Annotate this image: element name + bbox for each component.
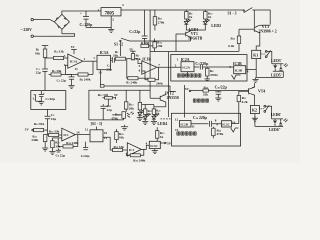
LED7 mark (127, 112, 134, 118)
regulator 7805 U1 (101, 8, 121, 17)
op-amp IC1C (62, 128, 76, 141)
resistor R14b 20k (124, 90, 128, 111)
resistor R7 240k (128, 77, 145, 80)
wire junction down to R7 (127, 59, 128, 78)
dashes S1-4 link (161, 118, 171, 120)
LED3' LED5' pair (272, 57, 288, 78)
capacitor C10 220u (209, 121, 221, 127)
resistor R18b 91k (115, 129, 119, 143)
5V tick R6 (129, 48, 136, 52)
frame lower monostable (172, 113, 241, 146)
ground R8 (205, 79, 210, 80)
oscillator section frame (89, 90, 150, 120)
ground C2 (68, 84, 74, 89)
capacitor C10r 22u (215, 91, 221, 96)
capacitor C9 22u (45, 110, 51, 131)
ground R15 (42, 146, 48, 151)
resistor R5 33k (116, 57, 138, 60)
contact K2 (259, 105, 271, 112)
capacitor C9b (83, 142, 88, 150)
capacitor C8 gnd (56, 148, 61, 152)
resistor R13 470k (112, 112, 125, 120)
AC terminal top (31, 18, 33, 20)
wire IC2A out (194, 66, 199, 68)
LED4 (152, 114, 158, 119)
ground 7805 pin2 (108, 27, 114, 32)
resistor R26 470k (212, 127, 216, 139)
transistor VT4 (239, 83, 255, 105)
wire LED cathodes join (186, 24, 205, 31)
5V supply IC1A (71, 45, 77, 54)
wire IC2D out down (103, 137, 113, 150)
wire VT2 collector join (154, 106, 166, 108)
wire VT1 emitter to S1-2 line (130, 40, 191, 42)
crystal tap (100, 76, 104, 87)
wire junction to IC1B pin5 (138, 59, 142, 64)
ground LED3 (142, 120, 148, 125)
oscillator bottom wire (89, 119, 124, 121)
resistor R27 270k (153, 10, 157, 31)
wire pin13 stub (100, 70, 102, 77)
relay K2 (250, 105, 259, 113)
cjk label upper frame (177, 74, 201, 77)
wire IC1C out (75, 134, 90, 136)
resistor R20 240k (126, 149, 144, 156)
capacitor C5 22u (142, 10, 148, 41)
resistor R23 33k (203, 89, 249, 92)
ground C10r (215, 96, 221, 101)
resistor R10 1k (204, 10, 208, 21)
resistor R9 1k (185, 10, 189, 21)
LED3 (143, 114, 149, 119)
gate IC3A (97, 55, 111, 69)
capacitor C4 220u (80, 11, 89, 27)
5V tap IC3C (160, 142, 171, 146)
wire long vertical mid feed (149, 10, 151, 98)
wire pin14 stub (187, 72, 189, 77)
wire R4 feedback to output (92, 61, 94, 74)
wire VT2 emitter feed (104, 86, 176, 94)
tick 5V (115, 97, 117, 99)
wire VT1 base (176, 34, 186, 52)
wire pin13 run (52, 137, 61, 139)
5V rail after switch (252, 10, 270, 25)
resistor R3 33k (49, 73, 66, 76)
waveform mark (232, 75, 241, 79)
wire bridge bottom stub (61, 29, 63, 33)
wire bridge top to regulator (62, 11, 101, 14)
capacitor C11 22u (100, 99, 108, 120)
resistor R17 33k (51, 138, 55, 150)
5V rail from 7805 pin3 (121, 9, 244, 11)
capacitor C2 22u (66, 74, 75, 83)
resistor R2 33k (54, 56, 68, 59)
wire K1 to ground rail (256, 59, 283, 78)
resistor R15 1k (138, 90, 141, 112)
wire S1-2 down (119, 42, 121, 56)
capacitor C4c coupling (111, 58, 116, 63)
resistor R6 91k (131, 51, 134, 60)
resistor R19 33k (113, 148, 128, 151)
op-amp IC1B (142, 61, 157, 75)
resistor R 0.2k (237, 29, 240, 51)
resistor R8 470 (206, 67, 210, 79)
cjk label lower frame (177, 132, 197, 135)
wire frame drop left (168, 52, 170, 118)
rail wire A (150, 51, 239, 53)
wire IC2B out (191, 123, 208, 125)
AC terminal bottom (31, 35, 33, 37)
resistor R 330 (141, 41, 153, 48)
sensor box L C3 (31, 91, 66, 110)
gate IC2C (222, 121, 232, 127)
wire IC1B out (157, 66, 181, 68)
LED2 (203, 19, 209, 24)
LED1 (184, 19, 190, 24)
gate IC3B (234, 66, 246, 74)
switch S1-2 (120, 38, 130, 42)
op-amp IC1D (127, 143, 141, 156)
ground top R18b (121, 125, 128, 130)
wire junction to R16 (48, 130, 49, 135)
wire IC2C out (232, 123, 239, 125)
ground IC3C (152, 149, 158, 154)
gate IC3C (149, 141, 160, 148)
wire mid vertical (184, 85, 186, 118)
resistor R4 240k (66, 73, 94, 76)
node R1/C1 junction wire (45, 57, 54, 59)
wire pin2 loop (66, 65, 68, 74)
transistor VT2 (150, 93, 166, 106)
wire LED bank top (138, 104, 154, 106)
wire IC1A out to IC3A (83, 60, 97, 62)
contact K1 (261, 50, 272, 57)
5V tap (185, 87, 203, 92)
gate IC2A (181, 62, 194, 72)
capacitor C7 220u (200, 65, 233, 70)
ground K1 rail (252, 77, 258, 82)
capacitor C1 22u (42, 58, 48, 91)
resistor R14 91k (34, 128, 48, 131)
resistor 240k feedback (142, 67, 159, 81)
wire IC1D out (141, 145, 149, 149)
5V tick R1 (42, 46, 48, 49)
wire AC bottom rail (33, 34, 74, 37)
resistor R330 body (102, 96, 115, 99)
resistor R22 1k (152, 105, 155, 117)
wire VT3 emitter top link (262, 24, 270, 26)
resistor R16 33k (49, 133, 62, 136)
switch S1-3 (243, 8, 252, 13)
gate IC2B (180, 121, 192, 128)
transistor VT3 (239, 10, 262, 50)
wire AC top to bridge (33, 20, 54, 22)
transistor VT1 (186, 31, 191, 41)
resistor R18 240k (58, 135, 78, 148)
wire IC3B out to VT3 chain (246, 69, 257, 71)
ground LED5 (137, 116, 143, 121)
waveform mark lower (231, 128, 239, 132)
relay K1 (252, 50, 261, 58)
op-amp IC1A (68, 54, 83, 68)
bridge rectifier (54, 14, 69, 29)
resistor R1 91k (43, 49, 47, 58)
wire C4 to pin2 ground run (86, 16, 111, 28)
resistor R12 20k (153, 39, 157, 52)
gate IC2D (90, 127, 103, 142)
5V tap R14 (25, 127, 34, 131)
ground LED4 (151, 120, 157, 125)
resistor R11 6.2k (237, 91, 241, 124)
frame upper monostable (171, 55, 247, 81)
resistor R21 1k (144, 105, 147, 117)
ground R17 (49, 150, 55, 155)
LED5 (138, 110, 144, 115)
wire K2 down (254, 114, 256, 127)
resistor R15 240k (43, 135, 47, 147)
LED6' LED6'' pair (255, 112, 288, 127)
cjk label reset (193, 99, 208, 102)
resistor R25 1k (155, 127, 159, 141)
scan noise (0, 0, 1, 1)
ground K2 (252, 116, 258, 121)
